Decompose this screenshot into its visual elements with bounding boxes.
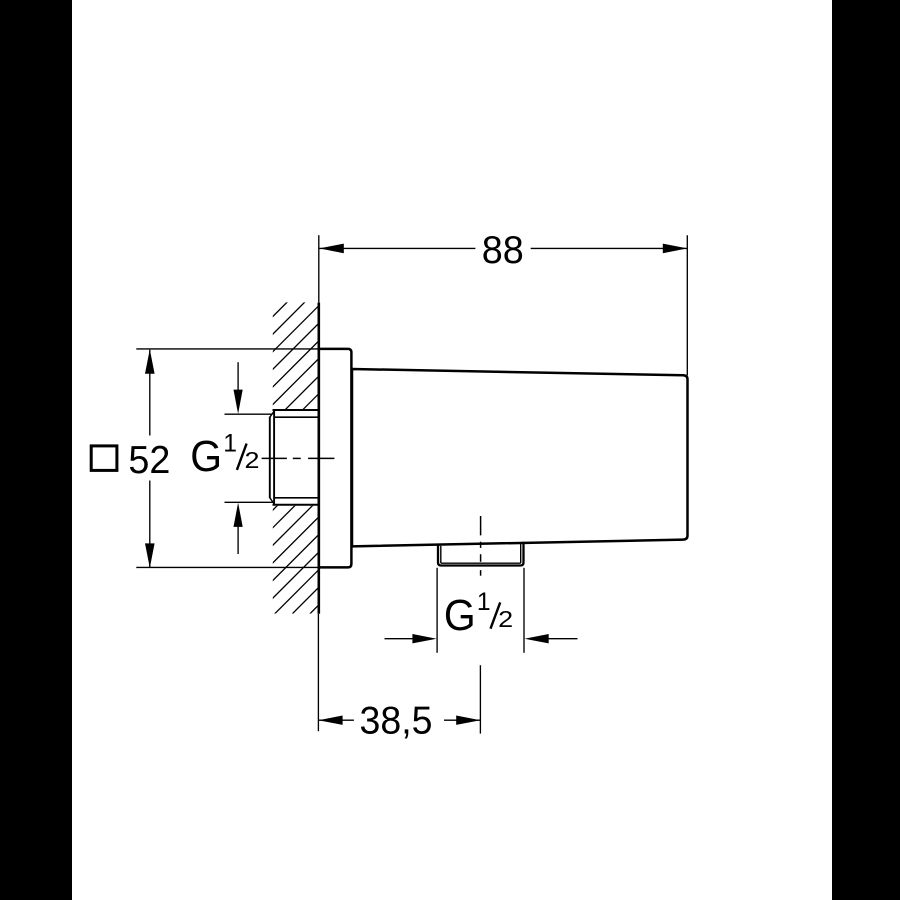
wall hatching	[0, 298, 626, 620]
outlet G1/2 left arrowhead	[412, 634, 436, 643]
inlet thread bottom arrow shaft	[237, 526, 239, 554]
square symbol	[91, 446, 117, 471]
inlet thread: inner bottom line	[275, 497, 319, 499]
inlet G 1/2 label	[190, 430, 259, 481]
body of wall union	[352, 369, 688, 546]
wall plate (escutcheon)	[319, 349, 352, 568]
88 dim right arrowhead	[663, 244, 688, 254]
inlet thread chamfer bottom	[270, 498, 275, 504]
inlet thread top arrow shaft	[237, 362, 239, 391]
38,5 left arrowhead	[318, 716, 342, 725]
52 dim bottom arrowhead	[145, 543, 155, 568]
inlet thread: end face inner vertical	[273, 411, 275, 505]
svg-text:52: 52	[128, 439, 170, 482]
38,5 right arrowhead	[456, 716, 480, 725]
inlet centerline dash-dot	[262, 457, 335, 459]
svg-text:1: 1	[477, 589, 491, 616]
outlet G1/2 right arrow shaft	[547, 638, 578, 640]
38,5 right extension line (outlet centerline continuation)	[479, 665, 481, 733]
52 top extension line	[136, 348, 319, 350]
inlet stub white mask	[269, 409, 319, 506]
inlet thread top extension line	[225, 413, 273, 415]
outlet stub inner left line	[440, 546, 442, 563]
88 dimension line right segment	[531, 247, 688, 249]
svg-text:2: 2	[498, 606, 513, 632]
52 dimension line upper segment	[149, 350, 151, 436]
inlet thread: end face outer vertical	[269, 417, 271, 498]
outlet stub inner right line	[520, 542, 522, 563]
svg-text:2: 2	[245, 447, 260, 473]
inlet thread bottom arrowhead	[234, 503, 243, 527]
inlet thread top arrowhead	[234, 390, 243, 414]
38,5 left extension line (wall line continuation)	[317, 614, 319, 731]
svg-text:G: G	[190, 433, 222, 481]
inlet thread G1/2: outer top line	[273, 409, 319, 411]
svg-text:88: 88	[482, 229, 524, 272]
outlet G1/2 right arrowhead	[525, 634, 549, 643]
52 dim top arrowhead	[145, 349, 155, 374]
52 dimension line lower segment	[149, 481, 151, 568]
svg-text:G: G	[444, 592, 476, 640]
38,5 dimension line right segment	[444, 719, 480, 721]
88 dim left extension line	[318, 235, 320, 302]
svg-text:38,5: 38,5	[360, 700, 433, 743]
outlet G1/2 left extension line	[436, 568, 438, 653]
wall edge line (thick)	[317, 303, 320, 614]
right black bar	[832, 0, 900, 900]
outlet stub outer outline	[438, 542, 524, 566]
outlet G1/2 left arrow shaft	[385, 638, 415, 640]
inlet thread chamfer top	[270, 411, 275, 418]
outlet stub inner bottom line	[441, 562, 521, 564]
inlet thread: inner top line	[275, 416, 319, 418]
left black bar	[0, 0, 72, 900]
38,5 dimension line left segment	[318, 719, 354, 721]
inlet thread bottom extension line	[225, 501, 273, 503]
svg-text:1: 1	[223, 430, 237, 457]
inlet thread: outer bottom line	[273, 504, 319, 506]
outlet G 1/2 label	[444, 589, 513, 640]
52 bottom extension line	[136, 566, 319, 568]
88 dim right extension line	[686, 235, 688, 375]
88 dimension line left segment	[319, 247, 475, 249]
88 dim left arrowhead	[319, 244, 344, 254]
outlet G1/2 right extension line	[523, 568, 525, 653]
outlet centerline dash-dot	[480, 516, 482, 576]
